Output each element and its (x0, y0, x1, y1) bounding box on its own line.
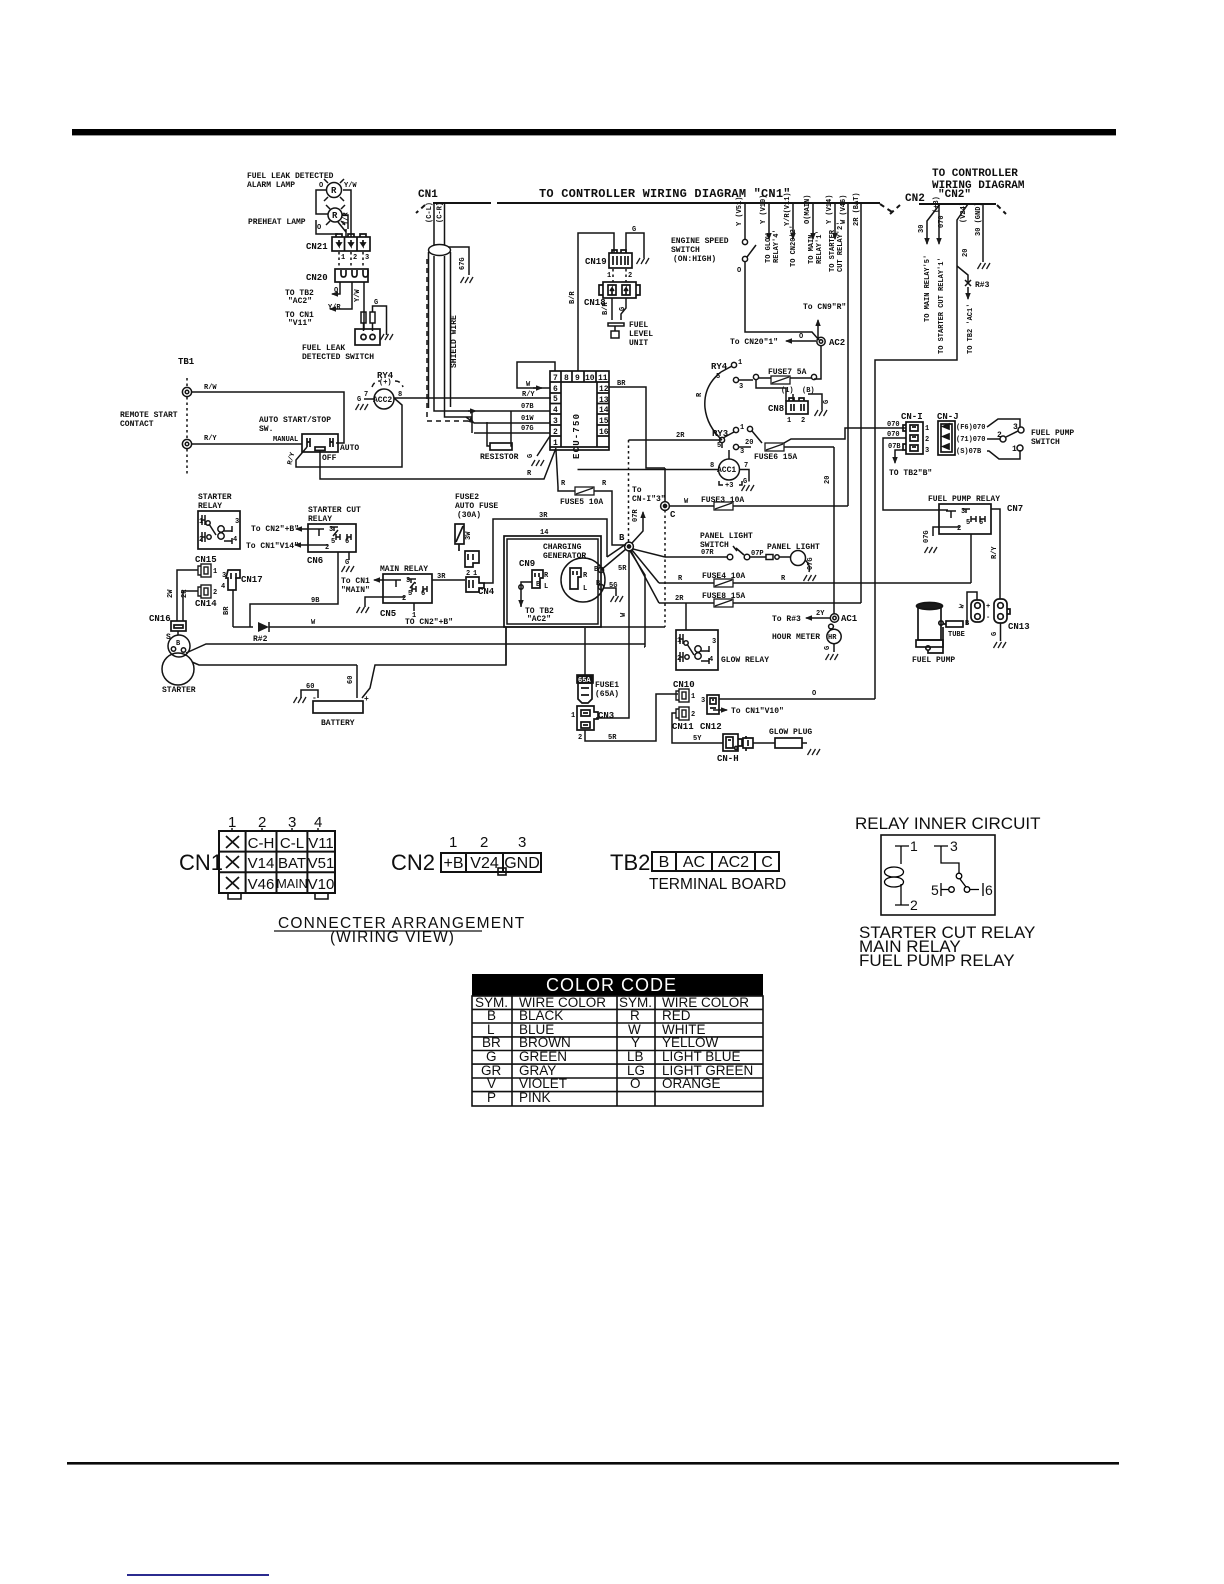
svg-text:CN11: CN11 (672, 722, 694, 732)
wire pin1 down to FUSE5 (556, 450, 558, 487)
ECU right pin column 12..16 (597, 382, 609, 447)
mating connector (743, 736, 753, 751)
svg-text:3R: 3R (437, 573, 446, 581)
svg-text:TO CONTROLLER WIRING DIAGRAM ": TO CONTROLLER WIRING DIAGRAM "CN1" (539, 187, 791, 201)
svg-text:L: L (583, 585, 587, 593)
wire CN13 to ground (1000, 623, 1002, 641)
svg-text:2: 2 (910, 897, 918, 913)
svg-text:AC: AC (683, 854, 705, 871)
svg-text:+: + (364, 695, 369, 704)
vertical tie 07B-07G (471, 411, 473, 433)
svg-text:2R: 2R (675, 595, 684, 603)
svg-text:2: 2 (353, 254, 357, 262)
svg-text:V51: V51 (308, 855, 335, 872)
svg-text:Y/R(V11): Y/R(V11) (784, 192, 792, 226)
svg-text:SWITCH: SWITCH (1031, 438, 1060, 447)
svg-text:+B: +B (443, 855, 463, 872)
connector CN10 (676, 689, 689, 702)
svg-text:2: 2 (402, 595, 406, 603)
svg-text:G: G (619, 307, 627, 311)
wire CN11 to CN-H 5Y (672, 713, 723, 743)
svg-text:B/R: B/R (569, 291, 577, 304)
svg-text:2: 2 (997, 431, 1002, 440)
wire BR from ECU pin12 (609, 387, 665, 468)
wire FUSE5 to B (594, 491, 626, 545)
svg-text:4: 4 (553, 406, 558, 415)
svg-text:(C-R): (C-R) (437, 202, 445, 223)
svg-text:3: 3 (712, 638, 716, 646)
connector CN-J (938, 421, 955, 455)
wire B diagonal from generator 5R (601, 549, 626, 570)
wire SCR pin6 ground (348, 552, 350, 560)
svg-text:BR: BR (617, 380, 626, 388)
svg-text:5Y: 5Y (693, 735, 702, 743)
svg-text:TO STARTER: TO STARTER (829, 229, 837, 272)
svg-text:G: G (991, 632, 999, 636)
wire 070 CN-I pin2 to fuel pump relay pin1 (883, 438, 948, 510)
wire RY4 pin3 to FUSE7 (739, 379, 753, 381)
svg-text:FUEL: FUEL (629, 321, 648, 330)
dashed pins CN19-CN18 (613, 269, 626, 282)
svg-text:RELAY INNER CIRCUIT: RELAY INNER CIRCUIT (855, 814, 1040, 833)
starter cut relay internals (314, 527, 351, 545)
svg-text:TO CN20'2': TO CN20'2' (790, 225, 798, 267)
wire R/W to auto switch (192, 392, 344, 443)
svg-text:LEVEL: LEVEL (629, 330, 653, 339)
connector CN8 (786, 398, 808, 414)
svg-text:67G: 67G (459, 257, 467, 270)
svg-text:GENERATOR: GENERATOR (543, 552, 586, 561)
svg-text:CN3: CN3 (598, 711, 614, 721)
wire drop Y(V14) (834, 203, 836, 239)
connector CN13 (994, 599, 1010, 623)
connector CN12 (707, 695, 719, 714)
svg-text:1: 1 (787, 417, 791, 425)
wire CN9 to TB2 AC2 (521, 582, 532, 607)
connector CN17 (226, 570, 240, 590)
svg-text:CN2: CN2 (391, 850, 435, 875)
svg-text:COLOR CODE: COLOR CODE (546, 975, 677, 995)
svg-text:RESISTOR: RESISTOR (480, 453, 519, 462)
svg-text:To CN1"V10": To CN1"V10" (731, 707, 784, 716)
wire 2R corner down to B (dotted) (628, 440, 630, 542)
wire auto sw to ACC2 (394, 398, 402, 467)
svg-text:TB2: TB2 (610, 850, 650, 875)
svg-text:CN1: CN1 (418, 189, 438, 201)
svg-text:1: 1 (553, 439, 558, 448)
svg-text:6: 6 (553, 385, 558, 394)
svg-text:Y (V14): Y (V14) (826, 195, 834, 224)
svg-text:REMOTE START: REMOTE START (120, 411, 178, 420)
svg-text:CHARGING: CHARGING (543, 543, 582, 552)
wire drop W(V46) long (847, 203, 849, 506)
svg-text:CN9: CN9 (519, 559, 535, 569)
svg-text:3: 3 (740, 448, 744, 456)
svg-text:3: 3 (406, 577, 410, 585)
CN2 cell texts (443, 855, 539, 872)
svg-text:3: 3 (235, 518, 239, 526)
svg-text:AUTO: AUTO (340, 444, 359, 453)
wire OFF pin down long R wire to ECU pin1 (320, 448, 556, 479)
wire fuel pump loop (967, 592, 977, 625)
svg-text:TERMINAL BOARD: TERMINAL BOARD (649, 876, 786, 893)
svg-text:R/W: R/W (204, 384, 217, 392)
fuel leak switch contacts (361, 306, 387, 335)
svg-text:CN6: CN6 (307, 556, 323, 566)
svg-text:O: O (812, 690, 816, 698)
svg-text:BATTERY: BATTERY (321, 719, 355, 728)
svg-text:3: 3 (925, 447, 929, 455)
wire (V24) 20 long drop (875, 204, 968, 699)
connector CN-I (903, 422, 923, 454)
wire 5G to ground (604, 588, 616, 596)
connector CN16 (171, 621, 186, 631)
top horizontal rule (72, 129, 1116, 135)
wire battery plus up (357, 627, 506, 698)
wire SCR pin5 down BR (250, 552, 338, 627)
svg-text:CN17: CN17 (241, 575, 263, 585)
shield inner wires (434, 256, 474, 417)
wire starter to mid wire (186, 644, 645, 653)
svg-text:4: 4 (709, 656, 713, 664)
CN2 pin numbers (449, 834, 526, 851)
svg-text:CN-H: CN-H (717, 754, 739, 764)
svg-text:R#3: R#3 (975, 281, 990, 290)
wire (+B) 30 drop to main relay5 (927, 204, 940, 244)
connector CN21 (332, 234, 370, 251)
svg-text:2R: 2R (676, 432, 685, 440)
CN1 X marks (226, 836, 239, 889)
svg-text:FUSE1: FUSE1 (595, 681, 619, 690)
svg-text:G: G (486, 1049, 497, 1064)
svg-text:CONTACT: CONTACT (120, 420, 154, 429)
svg-text:6: 6 (421, 590, 425, 598)
wire 30(GND) drop to ground (982, 204, 984, 262)
bus CN2 end dash right (997, 205, 1006, 214)
starter relay internals (202, 515, 232, 544)
svg-text:5R: 5R (618, 565, 627, 573)
svg-text:V24: V24 (470, 855, 499, 872)
svg-text:RELAY'4': RELAY'4' (773, 229, 781, 263)
svg-text:O: O (737, 267, 741, 275)
svg-text:HOUR METER: HOUR METER (772, 633, 820, 642)
dashed TB1 stem (186, 378, 188, 474)
svg-text:AUTO FUSE: AUTO FUSE (455, 502, 498, 511)
diode R#2 (233, 626, 253, 628)
svg-text:CN1: CN1 (179, 850, 223, 875)
main relay internals (391, 579, 427, 597)
svg-text:B: B (619, 533, 625, 543)
svg-text:STARTER: STARTER (162, 686, 196, 695)
svg-text:TO TB2"B": TO TB2"B" (889, 469, 932, 478)
wire ACC1 left long (578, 469, 719, 471)
svg-text:FUSE6 15A: FUSE6 15A (754, 453, 797, 462)
CN1 table grid (219, 831, 335, 893)
battery box (313, 701, 363, 713)
wire drop O(MAIN) (812, 203, 814, 239)
wire main relay pin3 3R to CN4 (415, 580, 465, 583)
svg-text:CUT RELAY'2': CUT RELAY'2' (837, 222, 845, 272)
svg-text:5: 5 (408, 590, 412, 598)
svg-text:2: 2 (628, 272, 632, 280)
svg-text:BR: BR (482, 1035, 501, 1050)
svg-text:3: 3 (961, 508, 965, 516)
svg-text:3: 3 (1013, 423, 1018, 432)
svg-text:3W: 3W (465, 531, 473, 540)
svg-text:ACC1: ACC1 (717, 466, 736, 475)
svg-text:To CN9"R": To CN9"R" (803, 303, 846, 312)
generator connector (570, 568, 581, 589)
starter motor (162, 653, 194, 685)
wire B up-right to CN-I'3' arrow (632, 512, 643, 543)
svg-text:TUBE: TUBE (948, 631, 965, 639)
wire main relay pin5 To CN2+B (413, 603, 415, 611)
svg-text:L: L (544, 583, 548, 591)
auto start/stop switch box (302, 434, 338, 452)
svg-text:60: 60 (347, 676, 355, 684)
wire CN20 pin1 to TB2 arrow (332, 282, 340, 294)
svg-text:3: 3 (365, 254, 369, 262)
svg-text:G: G (357, 396, 361, 404)
svg-text:TB1: TB1 (178, 357, 195, 367)
bottom blue link line (127, 1574, 269, 1576)
svg-text:20: 20 (745, 439, 753, 447)
CN1 cell texts (248, 835, 335, 893)
svg-text:2R: 2R (181, 589, 189, 598)
svg-text:CN21: CN21 (306, 242, 328, 252)
svg-text:(V24): (V24) (960, 202, 968, 223)
wire manual pin blade down (296, 447, 396, 467)
svg-text:CN4: CN4 (478, 587, 495, 597)
svg-text:YELLOW: YELLOW (662, 1035, 719, 1050)
battery minus lead (301, 690, 318, 698)
alarm lamp R (324, 179, 344, 201)
svg-text:07G: 07G (521, 425, 534, 433)
bus line CN1 (433, 202, 880, 204)
svg-text:R: R (332, 211, 338, 221)
svg-text:STARTER: STARTER (198, 493, 232, 502)
svg-text:AC2: AC2 (718, 854, 749, 871)
svg-text:"V11": "V11" (288, 319, 312, 328)
svg-text:CN20: CN20 (306, 273, 328, 283)
svg-text:1: 1 (925, 425, 929, 433)
svg-text:Y/W: Y/W (354, 289, 362, 302)
svg-text:ECU-750: ECU-750 (572, 413, 582, 459)
svg-text:O: O (319, 182, 323, 190)
svg-text:SWITCH: SWITCH (671, 246, 700, 255)
contact circle below AC1 (834, 622, 836, 623)
svg-text:3: 3 (950, 838, 958, 854)
svg-text:2: 2 (578, 734, 582, 742)
svg-text:070: 070 (938, 215, 946, 228)
svg-text:To: To (632, 486, 642, 495)
svg-text:2Y: 2Y (816, 610, 825, 618)
svg-text:V11: V11 (308, 835, 334, 852)
svg-text:SW.: SW. (259, 425, 273, 434)
svg-text:6: 6 (979, 519, 983, 527)
wire ACC2 to ECU pin5 R/Y (394, 397, 551, 399)
wire drop Y/R(V11) (792, 203, 794, 239)
svg-text:2: 2 (677, 655, 681, 663)
wire pin2 diagonal ground (537, 436, 550, 456)
dashed pins CN21-CN20 (339, 252, 363, 268)
svg-text:Y/W: Y/W (344, 182, 357, 190)
terminal TB1-1 (182, 387, 191, 396)
svg-text:CN7: CN7 (1007, 504, 1023, 514)
svg-text:RED: RED (662, 1008, 691, 1023)
preheat lamp R (326, 205, 345, 225)
svg-text:5: 5 (553, 395, 558, 404)
svg-text:VIOLET: VIOLET (519, 1076, 567, 1091)
svg-text:3: 3 (553, 417, 558, 426)
svg-text:6: 6 (985, 882, 993, 898)
stub R#3 to TB2 AC1 (957, 266, 968, 283)
wire CN4 to 3R riser (484, 579, 493, 583)
svg-text:1: 1 (341, 254, 345, 262)
starter solenoid (168, 635, 190, 657)
svg-text:2: 2 (199, 536, 203, 544)
svg-text:HR: HR (828, 634, 837, 642)
resistor legs (487, 411, 512, 446)
svg-text:2R (BAT): 2R (BAT) (853, 192, 861, 226)
fuel level unit float (608, 323, 624, 338)
fuse FUSE5 (575, 487, 594, 495)
wire engine speed switch down to AC2 (745, 262, 819, 340)
svg-text:FUSE3 10A: FUSE3 10A (701, 496, 744, 505)
svg-text:CN5: CN5 (380, 609, 396, 619)
terminal TB1-2 (182, 439, 191, 448)
svg-text:3: 3 (739, 383, 743, 391)
svg-text:1: 1 (449, 834, 457, 851)
svg-text:1: 1 (199, 518, 203, 526)
wire 07B pin3 stub (895, 450, 903, 463)
svg-text:PINK: PINK (519, 1090, 551, 1105)
svg-text:2: 2 (553, 428, 558, 437)
svg-text:CN-I: CN-I (901, 412, 923, 422)
svg-text:14: 14 (599, 406, 609, 415)
svg-text:FUEL PUMP RELAY: FUEL PUMP RELAY (928, 495, 1000, 504)
wire ACC2 left to ground (364, 398, 374, 400)
fuel leak detected switch box (355, 329, 380, 345)
svg-text:FUSE5 10A: FUSE5 10A (560, 498, 603, 507)
wire CN3 pin2 5R (585, 694, 678, 741)
arrow 01W into ECU pin3 (466, 417, 474, 423)
svg-text:AC2: AC2 (829, 338, 845, 348)
header (472, 974, 763, 996)
wires into CN8 (756, 380, 822, 410)
relay coil pin1 (895, 846, 909, 864)
svg-text:(S)07B: (S)07B (956, 448, 982, 456)
svg-text:5: 5 (331, 538, 335, 546)
svg-text:07G: 07G (923, 530, 931, 543)
shield cable body (429, 252, 451, 408)
svg-text:C-H: C-H (248, 835, 275, 852)
svg-text:07R: 07R (632, 509, 640, 522)
svg-text:CN-I"3": CN-I"3" (632, 495, 666, 504)
relay coil loops (885, 867, 904, 887)
wire FUSE6 out diagonal to CN-I (784, 428, 906, 443)
ground CN19 (637, 258, 650, 264)
svg-text:1: 1 (740, 424, 744, 432)
svg-text:Y (V10): Y (V10) (760, 195, 768, 224)
svg-text:R/Y: R/Y (991, 546, 999, 559)
wire CN-J pin3 to fuel pump switch 1 (987, 450, 1020, 459)
svg-text:FUEL LEAK: FUEL LEAK (302, 344, 345, 353)
shield wires drop C-L C-R (434, 203, 445, 245)
wire from B-drop mid wire (644, 646, 645, 648)
svg-text:07B: 07B (521, 403, 534, 411)
wire To CN20'1' arrow (786, 340, 816, 342)
relay inner circuit box (881, 835, 995, 915)
ECU left pin column 6..1 (550, 382, 609, 447)
connector CN15 (198, 564, 211, 577)
svg-text:(30A): (30A) (457, 511, 481, 520)
svg-text:FUEL PUMP: FUEL PUMP (1031, 429, 1074, 438)
svg-text:30: 30 (918, 225, 926, 233)
svg-text:MANUAL: MANUAL (273, 436, 298, 444)
TB2 board (652, 852, 779, 871)
wire CN16 to starter (177, 631, 179, 635)
wire C down to W long wire (dotted) (664, 510, 666, 627)
svg-text:5: 5 (966, 519, 970, 527)
svg-text:2: 2 (925, 436, 929, 444)
svg-text:G: G (345, 559, 349, 567)
svg-text:GLOW PLUG: GLOW PLUG (769, 728, 812, 737)
svg-text:(WIRING VIEW): (WIRING VIEW) (330, 929, 455, 946)
wire B to lower-left long wire (630, 551, 645, 647)
svg-text:"CN2": "CN2" (938, 189, 971, 201)
fuel pump switch contacts (1000, 427, 1024, 451)
wire CN7 pin2 to ground (933, 527, 950, 536)
svg-text:DETECTED SWITCH: DETECTED SWITCH (302, 353, 374, 362)
wire 01W to pin3 (474, 421, 550, 423)
wire Y(V51) drop (744, 203, 746, 239)
svg-text:20: 20 (962, 249, 970, 257)
wire ACC1 right to ground (740, 470, 750, 482)
svg-text:1: 1 (213, 568, 217, 576)
wire alarm lamp loop (316, 190, 351, 237)
connector CN18 (599, 282, 640, 298)
svg-text:O: O (799, 333, 803, 341)
svg-text:5: 5 (717, 442, 721, 450)
svg-text:07G: 07G (807, 557, 815, 570)
svg-text:1: 1 (677, 637, 681, 645)
connector CN11 (676, 707, 689, 720)
arrow 07B into ECU pin4 (468, 410, 476, 412)
contact ACC2 (374, 389, 394, 409)
ground CN8 (815, 410, 828, 416)
svg-text:7: 7 (553, 374, 558, 383)
svg-text:V10: V10 (308, 876, 335, 893)
svg-text:To CN1: To CN1 (341, 577, 370, 586)
svg-text:1: 1 (607, 272, 611, 280)
svg-text:2: 2 (480, 834, 488, 851)
svg-text:3R: 3R (539, 512, 548, 520)
svg-text:Y/R: Y/R (343, 212, 351, 225)
svg-text:Y/R: Y/R (328, 304, 341, 312)
wire B to FUSE4 (632, 550, 659, 583)
svg-text:-: - (312, 694, 317, 703)
svg-text:2: 2 (325, 544, 329, 552)
svg-text:O: O (317, 224, 321, 232)
svg-text:13: 13 (599, 396, 609, 405)
bus end dash left (416, 205, 425, 213)
svg-text:G: G (374, 299, 378, 307)
relay pin3 lead (934, 846, 959, 873)
svg-text:R#2: R#2 (253, 635, 268, 644)
wire W loop pin7 to pin6 (517, 362, 555, 388)
svg-text:5: 5 (931, 882, 939, 898)
